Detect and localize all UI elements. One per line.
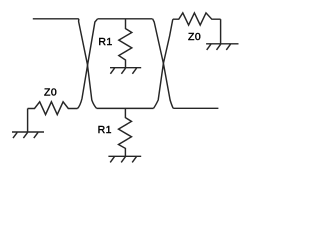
ground (below upper R1): [110, 68, 141, 74]
wire: top-right ground stem: [220, 19, 222, 44]
wire: right crossover, top-left to bottom-right: [153, 19, 174, 109]
svg-text:R1: R1: [98, 36, 112, 48]
ground (below lower R1): [108, 156, 141, 162]
svg-text:Z0: Z0: [188, 31, 201, 43]
svg-text:Z0: Z0: [44, 87, 57, 99]
ground (top-right): [206, 44, 238, 50]
wire: left crossover, top-left to bottom-right: [79, 19, 97, 109]
wire: lattice box bottom edge: [97, 107, 154, 109]
ground (bottom-left): [12, 132, 44, 138]
resistor Z0 (bottom-left source termination): [28, 102, 78, 115]
wire: lattice box top edge: [98, 18, 153, 20]
svg-text:R1: R1: [98, 124, 112, 136]
wire: left crossover, top-right to bottom-left: [78, 19, 98, 109]
resistor R1 (upper, shunt inside lattice): [119, 19, 132, 68]
resistor Z0 (top-right load termination): [173, 13, 221, 25]
wire: right crossover, bottom-left to top-right: [154, 19, 173, 108]
wire: top-left port rail: [33, 18, 79, 20]
resistor R1 (lower, shunt below lattice): [119, 108, 132, 156]
wire: bottom-left ground stem: [27, 109, 29, 133]
wire: bottom-right port rail: [173, 107, 218, 109]
